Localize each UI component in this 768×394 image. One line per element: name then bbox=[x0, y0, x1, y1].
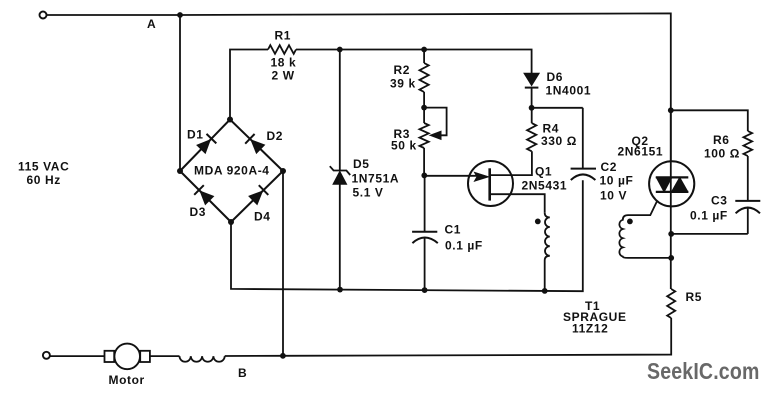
svg-text:D6: D6 bbox=[547, 70, 564, 84]
svg-text:C1: C1 bbox=[445, 223, 462, 237]
svg-text:D4: D4 bbox=[254, 210, 271, 224]
svg-text:18 k: 18 k bbox=[271, 56, 297, 70]
svg-text:50 k: 50 k bbox=[391, 139, 417, 153]
svg-text:D3: D3 bbox=[190, 205, 207, 219]
svg-text:0.1 µF: 0.1 µF bbox=[690, 209, 728, 223]
svg-text:C3: C3 bbox=[711, 194, 728, 208]
svg-text:2 W: 2 W bbox=[272, 69, 295, 83]
svg-text:MDA 920A-4: MDA 920A-4 bbox=[194, 164, 270, 178]
svg-text:D1: D1 bbox=[187, 128, 204, 142]
svg-text:60 Hz: 60 Hz bbox=[27, 173, 61, 187]
svg-text:330 Ω: 330 Ω bbox=[541, 134, 577, 148]
svg-text:Q1: Q1 bbox=[535, 165, 552, 179]
svg-text:0.1 µF: 0.1 µF bbox=[445, 239, 483, 253]
svg-text:1N751A: 1N751A bbox=[352, 172, 400, 186]
svg-text:B: B bbox=[238, 366, 247, 380]
svg-text:A: A bbox=[147, 17, 156, 31]
svg-text:D5: D5 bbox=[353, 157, 370, 171]
svg-text:100 Ω: 100 Ω bbox=[704, 147, 740, 161]
svg-text:R1: R1 bbox=[275, 29, 292, 43]
svg-text:R6: R6 bbox=[713, 133, 730, 147]
svg-text:39 k: 39 k bbox=[390, 77, 416, 91]
svg-text:C2: C2 bbox=[601, 160, 618, 174]
svg-text:10 V: 10 V bbox=[600, 189, 627, 203]
svg-text:R5: R5 bbox=[686, 290, 703, 304]
svg-text:2N5431: 2N5431 bbox=[522, 179, 568, 193]
svg-text:Motor: Motor bbox=[109, 373, 145, 387]
svg-text:5.1 V: 5.1 V bbox=[353, 186, 384, 200]
svg-text:11Z12: 11Z12 bbox=[572, 322, 608, 336]
svg-text:10 µF: 10 µF bbox=[600, 174, 634, 188]
svg-text:SeekIC.com: SeekIC.com bbox=[647, 358, 760, 384]
svg-text:115 VAC: 115 VAC bbox=[18, 160, 69, 174]
svg-text:R2: R2 bbox=[394, 63, 411, 77]
svg-text:1N4001: 1N4001 bbox=[546, 84, 592, 98]
svg-text:D2: D2 bbox=[267, 129, 284, 143]
svg-text:2N6151: 2N6151 bbox=[618, 145, 664, 159]
